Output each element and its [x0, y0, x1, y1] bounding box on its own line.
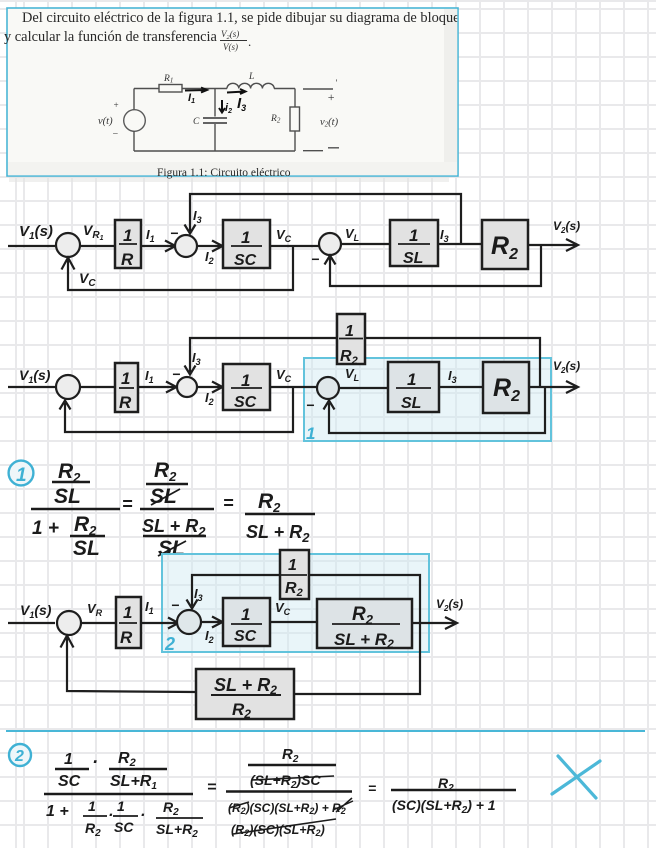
svg-text:I3: I3	[192, 350, 201, 367]
svg-text:R1: R1	[163, 74, 173, 85]
svg-text:SL + R2: SL + R2	[246, 522, 310, 545]
svg-text:Del circuito eléctrico de la f: Del circuito eléctrico de la figura 1.1,…	[22, 10, 466, 26]
svg-text:2: 2	[164, 634, 175, 654]
svg-text:I3: I3	[440, 227, 449, 244]
svg-text:1: 1	[88, 798, 96, 814]
svg-text:I1: I1	[146, 227, 155, 244]
svg-text:VL: VL	[345, 226, 359, 243]
svg-text:1 +: 1 +	[32, 518, 59, 539]
svg-text:I1: I1	[145, 368, 154, 385]
svg-text:SL: SL	[401, 395, 421, 412]
svg-text:R2: R2	[163, 799, 179, 818]
svg-text:SL: SL	[150, 485, 177, 508]
svg-text:=: =	[223, 493, 234, 513]
svg-text:I1: I1	[145, 599, 154, 616]
svg-text:1: 1	[123, 226, 132, 245]
svg-text:R2: R2	[258, 490, 281, 515]
svg-text:1: 1	[345, 323, 354, 340]
svg-text:V1(s): V1(s)	[19, 223, 53, 242]
svg-text:(SL+R2)SC: (SL+R2)SC	[250, 772, 321, 791]
svg-text:=: =	[207, 779, 216, 796]
svg-text:SC: SC	[58, 773, 81, 790]
svg-text:+: +	[327, 90, 335, 104]
svg-text:R2: R2	[154, 459, 177, 484]
svg-text:VR: VR	[87, 601, 103, 618]
svg-text:SL: SL	[54, 485, 81, 508]
svg-text:2: 2	[14, 748, 24, 765]
svg-text:+: +	[113, 100, 119, 110]
svg-text:SL: SL	[403, 250, 423, 267]
svg-text:(R2)(SC)(SL+R2): (R2)(SC)(SL+R2)	[231, 823, 325, 838]
svg-text:1: 1	[407, 370, 416, 389]
svg-text:R: R	[119, 393, 132, 412]
svg-text:−: −	[170, 225, 178, 241]
svg-text:R2: R2	[282, 746, 299, 765]
svg-text:1: 1	[123, 603, 132, 622]
svg-text:(SC)(SL+R2) + 1: (SC)(SL+R2) + 1	[392, 797, 496, 816]
svg-text:VC: VC	[276, 367, 292, 384]
svg-text:1: 1	[306, 424, 315, 443]
svg-text:R2: R2	[85, 820, 101, 839]
svg-text:1: 1	[288, 557, 297, 574]
svg-text:·: ·	[92, 752, 98, 772]
svg-text:1: 1	[64, 751, 73, 768]
svg-text:R2: R2	[74, 513, 97, 538]
svg-text:SC: SC	[234, 252, 257, 269]
svg-text:R: R	[120, 628, 133, 647]
svg-text:=: =	[122, 494, 133, 514]
svg-text:1: 1	[117, 798, 125, 814]
svg-text:−: −	[311, 251, 319, 267]
svg-text:v2(t): v2(t)	[320, 117, 339, 129]
svg-text:1: 1	[409, 226, 418, 245]
svg-text:1: 1	[241, 371, 250, 390]
svg-text:1: 1	[241, 605, 250, 624]
svg-text:R2: R2	[118, 750, 136, 769]
svg-text:SL+R2: SL+R2	[156, 821, 198, 840]
svg-text:1: 1	[16, 465, 27, 486]
svg-text:SC: SC	[234, 394, 257, 411]
svg-text:1 +: 1 +	[46, 803, 69, 820]
svg-text:Figura 1.1: Circuito eléctrico: Figura 1.1: Circuito eléctrico	[157, 167, 291, 179]
svg-text:·: ·	[108, 807, 113, 824]
svg-text:1: 1	[121, 369, 130, 388]
svg-text:L: L	[248, 72, 254, 82]
svg-text:SC: SC	[114, 819, 134, 835]
svg-text:SL+R1: SL+R1	[110, 773, 157, 792]
svg-text:.: .	[248, 34, 251, 49]
svg-text:SL + R2: SL + R2	[214, 675, 277, 697]
svg-text:v(t): v(t)	[98, 116, 113, 127]
svg-text:−: −	[306, 397, 314, 413]
svg-text:SL: SL	[73, 537, 100, 560]
svg-text:V2(s): V2(s)	[553, 359, 580, 375]
svg-text:1: 1	[241, 228, 250, 247]
svg-text:V1(s): V1(s)	[20, 602, 52, 620]
svg-text:y calcular la función de trans: y calcular la función de transferencia	[4, 29, 218, 45]
svg-text:−: −	[172, 366, 180, 382]
svg-text:=: =	[368, 780, 376, 796]
svg-text:VR1: VR1	[83, 222, 104, 242]
svg-text:SC: SC	[234, 628, 257, 645]
svg-text:V1(s): V1(s)	[19, 367, 51, 385]
svg-text:−: −	[171, 597, 179, 613]
svg-text:V(s): V(s)	[223, 42, 238, 52]
svg-text:VC: VC	[276, 227, 292, 244]
svg-text:V2(s): V2(s)	[553, 219, 580, 235]
svg-text:·: ·	[140, 807, 145, 824]
svg-text:I3: I3	[193, 208, 202, 225]
svg-text:SL + R2: SL + R2	[334, 630, 394, 651]
svg-text:VC: VC	[79, 270, 96, 289]
svg-text:V2(s): V2(s)	[436, 597, 463, 613]
svg-text:−: −	[112, 129, 119, 140]
svg-text:R2: R2	[270, 114, 281, 125]
svg-text:R: R	[121, 250, 134, 269]
svg-text:C: C	[193, 117, 200, 127]
